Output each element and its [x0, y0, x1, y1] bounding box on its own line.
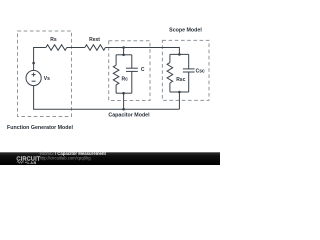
logo zigzag [17, 161, 24, 163]
svg-text:http://circuitlab.com/cpq6hg: http://circuitlab.com/cpq6hg [40, 155, 92, 160]
resistor Rsc [167, 63, 173, 83]
svg-text:Vs: Vs [44, 76, 50, 82]
svg-text:Scope Model: Scope Model [169, 28, 202, 34]
wire: cap model bottom stub [123, 93, 125, 109]
svg-text:Csc: Csc [196, 69, 205, 75]
capacitor C [126, 67, 138, 69]
node dot ground rail [122, 108, 125, 111]
voltage source Vs [26, 70, 41, 85]
capacitor model dashed box [109, 41, 150, 101]
node dot scope bottom bar [178, 91, 181, 94]
svg-text:C: C [141, 67, 145, 73]
wire: C branch top lead [131, 55, 133, 68]
wire: scope bottom bar [170, 91, 189, 93]
wire: Csc branch bottom lead [188, 72, 190, 92]
function generator model dashed box [18, 31, 72, 117]
wire: Rsc branch bottom lead [169, 83, 171, 92]
node dot cap model bottom bar [122, 92, 125, 95]
wire: Vs bottom to ground rail [34, 86, 180, 109]
wire: Vs top to main rail [34, 48, 46, 71]
wire: scope top bar [170, 53, 189, 55]
wire: Rc branch bottom lead [115, 85, 117, 93]
wire: cap model bottom bar [116, 92, 132, 94]
svg-text:Rc: Rc [122, 77, 129, 83]
capacitor Csc [183, 68, 195, 70]
svg-text:Rs: Rs [50, 37, 57, 43]
wire: Rc branch top lead [115, 55, 117, 65]
resistor Rext [85, 45, 106, 51]
wire: Rsc branch top lead [169, 54, 171, 62]
wire: scope bottom stub [178, 92, 180, 109]
scope model dashed box [162, 40, 209, 100]
footer bar [0, 152, 220, 165]
wire: Csc branch top lead [188, 54, 190, 69]
wire: cap model top stub [123, 48, 125, 55]
wire: Rs to Rext [67, 47, 85, 49]
svg-text:Function Generator Model: Function Generator Model [7, 125, 73, 131]
svg-text:Rext: Rext [89, 37, 100, 43]
svg-text:Capacitor Model: Capacitor Model [108, 113, 150, 119]
node dot cap model top bar [122, 54, 125, 57]
node dot cap model rail [122, 46, 125, 49]
wire: Rext to scope corner [105, 48, 179, 55]
wire: C branch bottom lead [131, 71, 133, 93]
node dot scope top bar [178, 53, 181, 56]
wire: cap model top bar [116, 54, 132, 56]
node dot Vs top [32, 62, 35, 65]
resistor Rc [113, 65, 119, 85]
resistor Rs [46, 45, 67, 51]
svg-text:LAB: LAB [27, 161, 36, 165]
svg-text:Rsc: Rsc [176, 77, 185, 83]
